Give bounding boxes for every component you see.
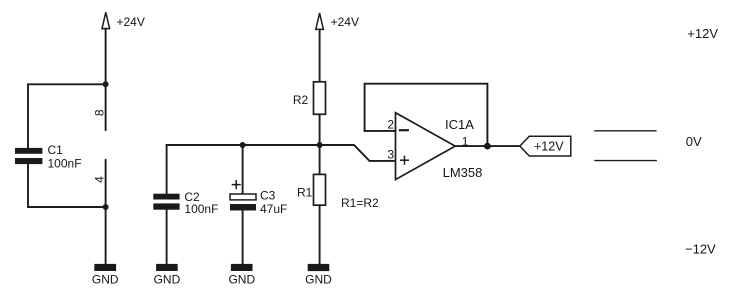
svg-text:R2: R2: [293, 93, 309, 107]
svg-text:+12V: +12V: [534, 140, 564, 154]
node D junction: [317, 142, 323, 148]
net flag +12V: [520, 136, 571, 156]
feedback wire: [365, 84, 488, 146]
svg-text:4: 4: [93, 176, 107, 183]
node C junction (C3 tap): [240, 142, 246, 148]
minus mark inverting input: [400, 129, 408, 131]
svg-text:C3: C3: [260, 189, 276, 203]
svg-text:47uF: 47uF: [260, 202, 287, 216]
svg-text:100nF: 100nF: [48, 157, 82, 171]
ground GND 4: [305, 264, 332, 287]
node A junction: [103, 81, 109, 87]
svg-text:C1: C1: [48, 143, 64, 157]
svg-text:3: 3: [387, 147, 394, 161]
resistor R2: [314, 82, 326, 115]
svg-text:0V: 0V: [686, 134, 702, 149]
svg-text:+24V: +24V: [117, 15, 145, 29]
output wire pin 1: [455, 145, 520, 147]
wire pin 2: [365, 130, 396, 132]
svg-text:GND: GND: [154, 273, 181, 287]
svg-text:GND: GND: [305, 273, 332, 287]
wire bus to op-amp +input: [167, 145, 396, 161]
svg-text:1: 1: [462, 134, 469, 148]
ground GND 2: [154, 264, 181, 287]
svg-text:+12V: +12V: [687, 26, 718, 41]
ground GND 1: [92, 264, 119, 287]
rail line lower: [595, 160, 656, 162]
capacitor C2: [153, 194, 179, 210]
svg-text:GND: GND: [92, 273, 119, 287]
capacitor C3 electrolytic: [230, 194, 256, 211]
plus mark non-inverting input: [401, 156, 409, 164]
wire C2 top to bus: [166, 145, 168, 194]
svg-text:+24V: +24V: [331, 15, 359, 29]
capacitor C1: [15, 148, 42, 164]
node E output junction: [484, 143, 491, 150]
resistor R1: [314, 174, 326, 205]
wire node A to C1 top: [28, 84, 106, 148]
wire C3 top: [242, 145, 244, 194]
polarity plus C3: [232, 181, 240, 189]
ground GND 3: [228, 264, 255, 287]
svg-text:LM358: LM358: [443, 165, 483, 180]
wire node B to ground: [105, 207, 107, 264]
wire C1 bottom to node B: [28, 164, 106, 207]
svg-text:IC1A: IC1A: [445, 117, 474, 132]
supply arrow +24V left: [102, 12, 110, 28]
rail line upper: [595, 130, 656, 132]
svg-text:2: 2: [387, 118, 394, 132]
svg-text:R1: R1: [297, 186, 313, 200]
pin stub 4: [105, 160, 107, 207]
wire C3 bottom to ground: [242, 211, 244, 265]
svg-text:8: 8: [93, 109, 107, 116]
op-amp IC1A body: [396, 113, 456, 180]
supply arrow +24V mid: [316, 13, 324, 29]
svg-text:−12V: −12V: [685, 242, 716, 257]
svg-text:R1=R2: R1=R2: [341, 196, 379, 210]
wire R1 to ground: [319, 205, 321, 264]
wire supply-left to node A: [105, 29, 107, 85]
wire C2 bottom to ground: [166, 210, 168, 264]
pin stub 8: [105, 84, 107, 130]
node B junction: [103, 204, 109, 210]
wire supply-mid to R2: [319, 29, 321, 81]
svg-text:GND: GND: [228, 273, 255, 287]
wire R2 to R1 through node D: [319, 114, 321, 174]
svg-text:100nF: 100nF: [184, 202, 218, 216]
